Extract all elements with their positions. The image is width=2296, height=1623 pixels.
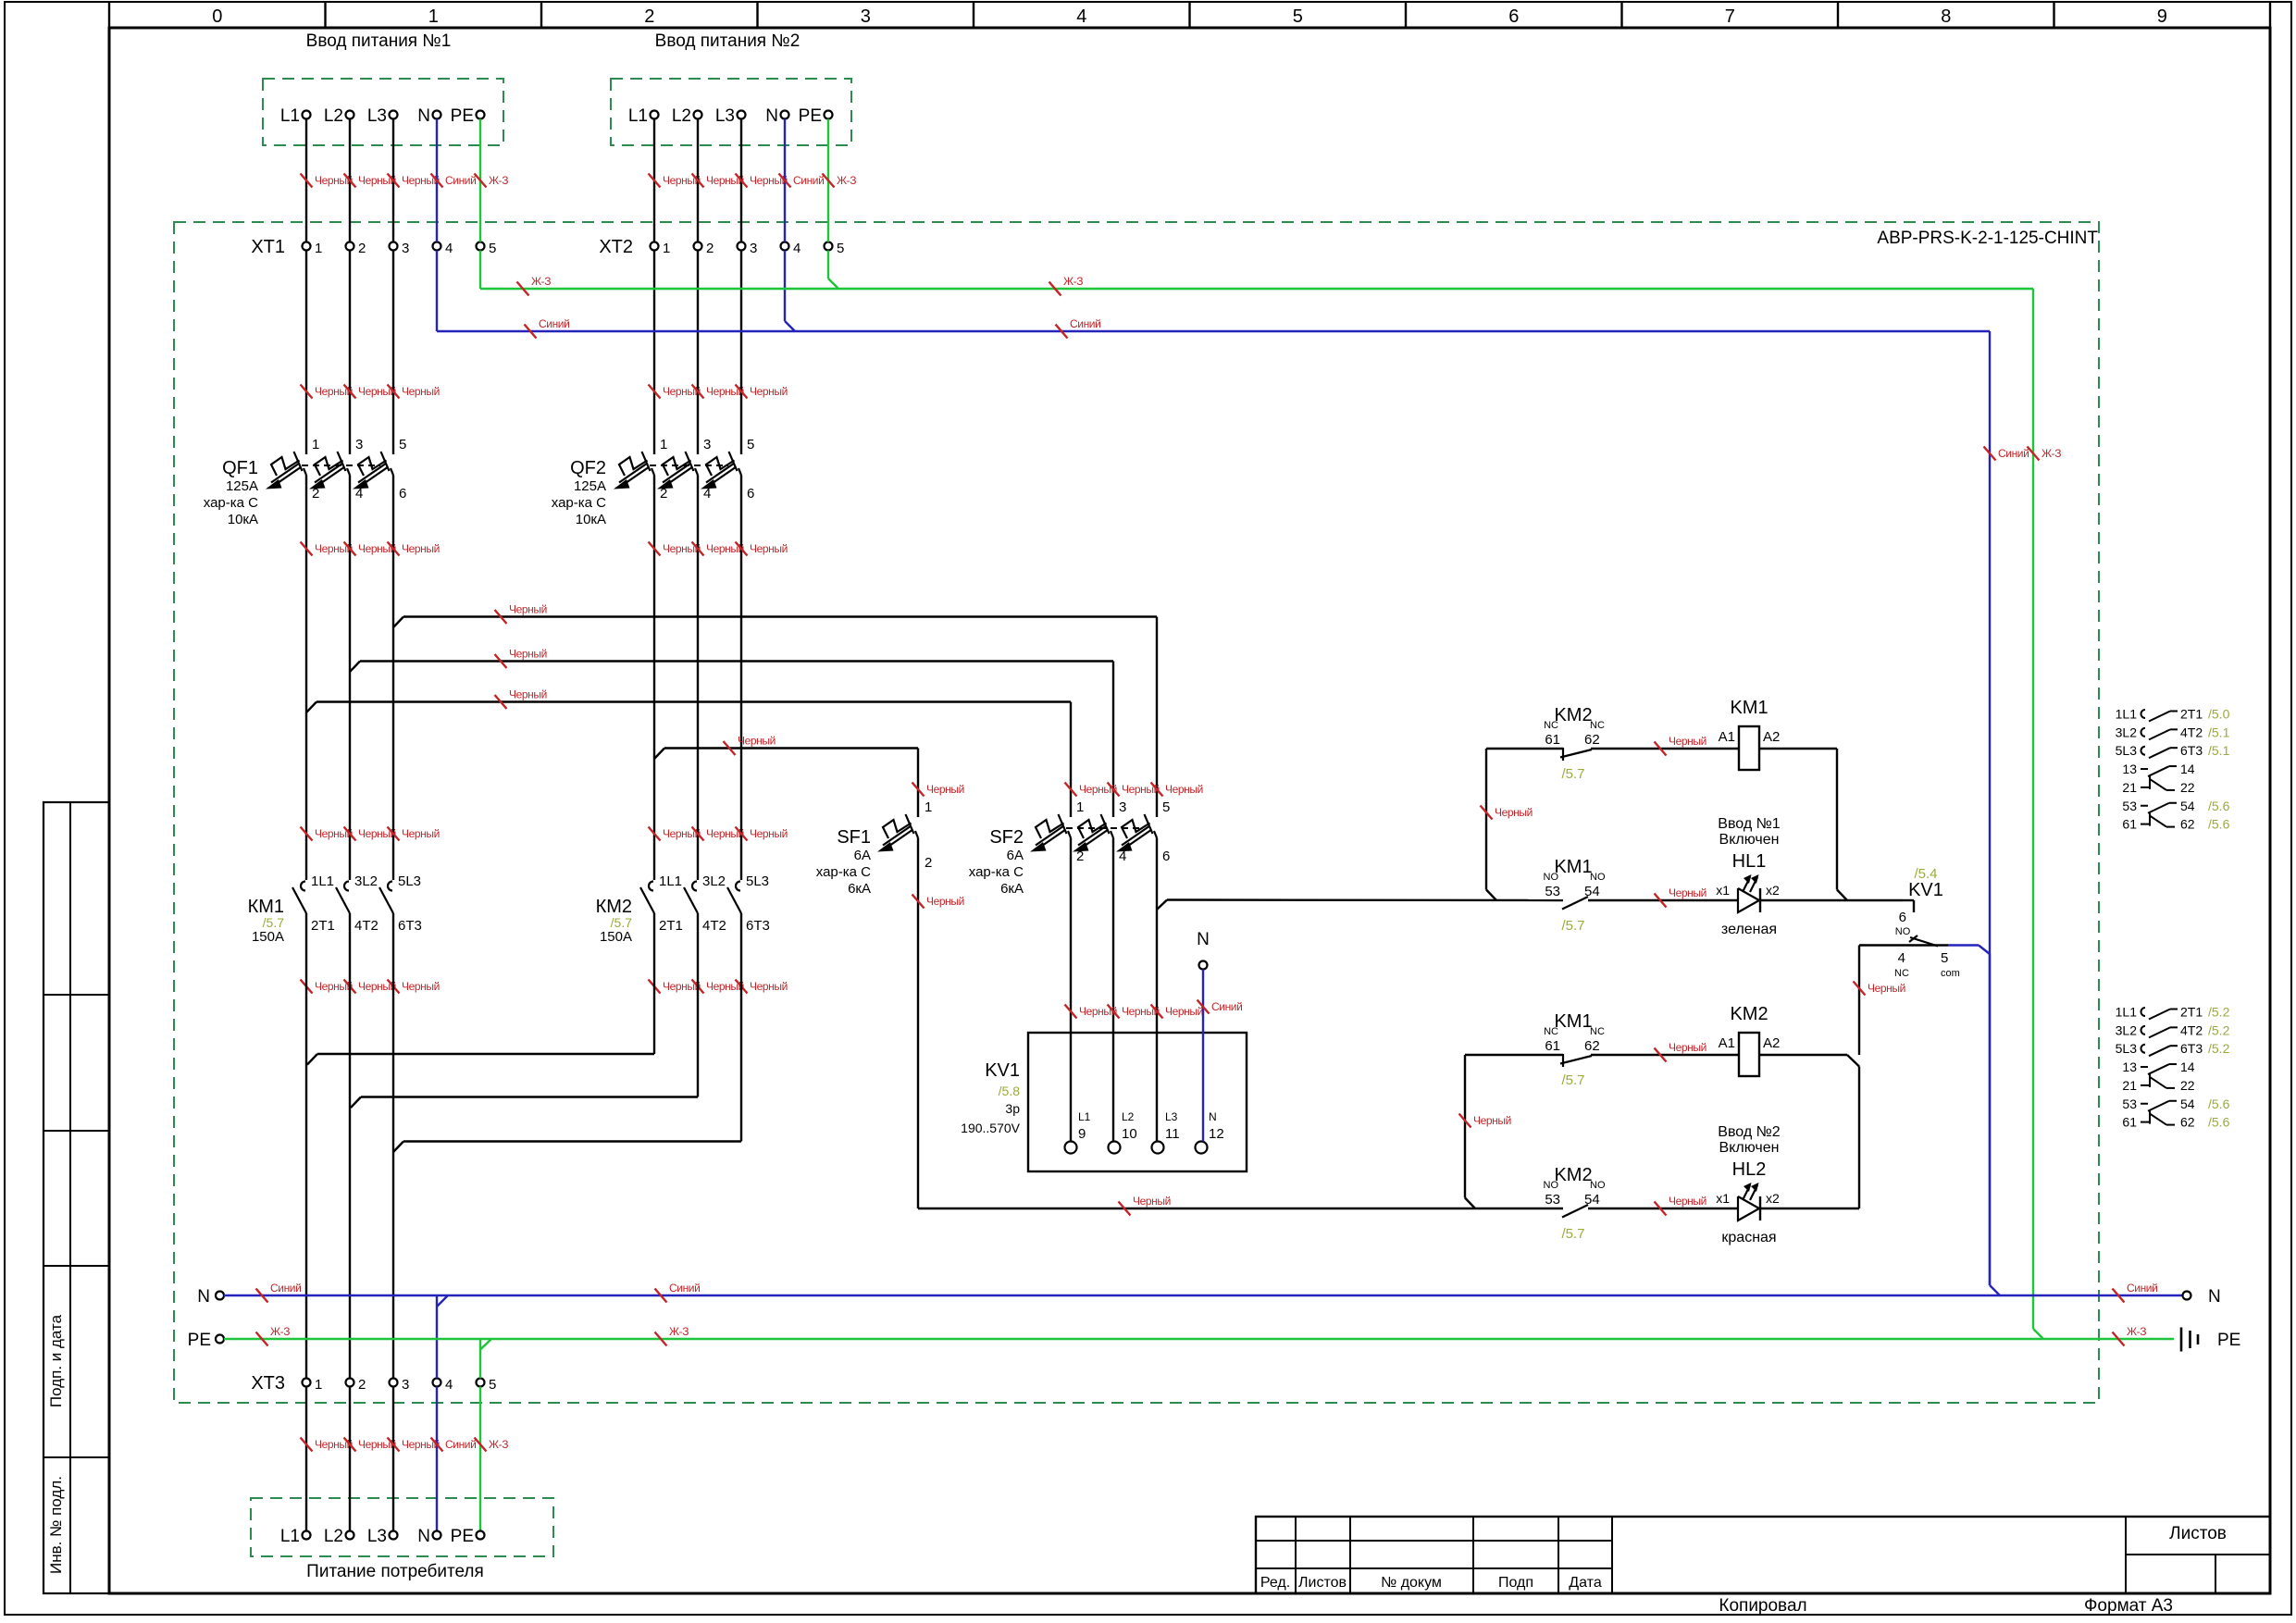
svg-text:8: 8	[1941, 6, 1951, 27]
svg-text:61: 61	[2122, 1115, 2137, 1130]
svg-text:2: 2	[925, 855, 932, 871]
svg-text:4T2: 4T2	[2180, 725, 2203, 739]
svg-text:10: 10	[1122, 1126, 1137, 1142]
svg-text:3: 3	[402, 241, 409, 256]
svg-text:5L3: 5L3	[2116, 743, 2138, 758]
svg-text:Ж-З: Ж-З	[531, 275, 551, 288]
svg-text:150А: 150А	[600, 929, 632, 945]
svg-text:Черный: Черный	[1868, 982, 1905, 995]
svg-text:62: 62	[2180, 1115, 2195, 1130]
svg-text:Черный: Черный	[750, 385, 788, 398]
svg-text:/5.2: /5.2	[2208, 1041, 2230, 1056]
svg-text:Листов: Листов	[1298, 1575, 1347, 1591]
svg-text:62: 62	[1584, 732, 1600, 748]
svg-text:Черный: Черный	[509, 648, 547, 661]
svg-text:NC: NC	[1590, 720, 1605, 731]
svg-text:№ докум: № докум	[1381, 1575, 1442, 1591]
svg-text:6: 6	[1162, 849, 1170, 864]
svg-text:53: 53	[2122, 1096, 2137, 1111]
svg-text:6: 6	[1508, 6, 1519, 27]
svg-text:x1: x1	[1716, 1191, 1730, 1206]
svg-text:NC: NC	[1544, 1026, 1558, 1037]
svg-text:KM2: KM2	[1554, 705, 1592, 725]
svg-text:PE: PE	[451, 1527, 474, 1546]
svg-text:150А: 150А	[252, 929, 284, 945]
svg-text:14: 14	[2180, 1059, 2195, 1074]
svg-text:QF2: QF2	[570, 458, 606, 478]
svg-text:/5.7: /5.7	[611, 915, 633, 930]
svg-text:Синий: Синий	[270, 1282, 301, 1295]
svg-text:7: 7	[1725, 6, 1735, 27]
svg-text:хар-ка С: хар-ка С	[204, 495, 258, 511]
svg-text:Черный: Черный	[1165, 783, 1203, 796]
svg-text:Черный: Черный	[738, 735, 776, 748]
svg-text:54: 54	[2180, 799, 2195, 813]
svg-text:NO: NO	[1544, 1180, 1559, 1191]
svg-text:13: 13	[2122, 762, 2137, 776]
svg-text:KV1: KV1	[1908, 880, 1943, 900]
svg-text:L2: L2	[324, 1527, 343, 1546]
svg-text:XT3: XT3	[251, 1373, 285, 1394]
svg-text:Черный: Черный	[1669, 735, 1706, 748]
svg-text:62: 62	[2180, 817, 2195, 832]
svg-text:NO: NO	[1895, 926, 1911, 937]
svg-text:Подп: Подп	[1498, 1575, 1533, 1591]
svg-text:3L2: 3L2	[2116, 1022, 2138, 1037]
svg-text:54: 54	[2180, 1096, 2195, 1111]
svg-text:Черный: Черный	[1669, 1195, 1706, 1208]
svg-text:0: 0	[212, 6, 222, 27]
svg-text:PE: PE	[188, 1331, 211, 1350]
svg-text:6T3: 6T3	[2180, 743, 2203, 758]
svg-text:Дата: Дата	[1569, 1575, 1602, 1591]
svg-text:L3: L3	[715, 106, 735, 126]
svg-text:KV1: KV1	[985, 1060, 1020, 1081]
svg-text:АВР-PRS-K-2-1-125-CHINT: АВР-PRS-K-2-1-125-CHINT	[1877, 229, 2098, 248]
svg-text:com: com	[1941, 968, 1960, 979]
svg-text:хар-ка С: хар-ка С	[969, 864, 1024, 880]
svg-text:L2: L2	[1122, 1110, 1135, 1123]
svg-text:Синий: Синий	[1070, 317, 1100, 330]
svg-text:/5.6: /5.6	[2208, 1115, 2230, 1130]
svg-text:/5.7: /5.7	[1561, 918, 1584, 934]
svg-text:6: 6	[399, 486, 406, 502]
svg-text:5: 5	[747, 437, 754, 452]
svg-text:/5.6: /5.6	[2208, 799, 2230, 813]
svg-text:125А: 125А	[574, 478, 606, 494]
svg-text:PE: PE	[799, 106, 822, 126]
svg-text:N: N	[2208, 1287, 2221, 1307]
svg-text:Формат А3: Формат А3	[2084, 1596, 2173, 1616]
svg-text:зеленая: зеленая	[1721, 922, 1777, 937]
svg-text:5L3: 5L3	[746, 873, 769, 889]
svg-text:/5.6: /5.6	[2208, 1096, 2230, 1111]
svg-text:NC: NC	[1590, 1026, 1605, 1037]
svg-text:/5.1: /5.1	[2208, 743, 2230, 758]
svg-text:3: 3	[750, 241, 757, 256]
svg-text:L1: L1	[628, 106, 648, 126]
svg-text:L1: L1	[280, 1527, 300, 1546]
svg-text:Инв. № подл.: Инв. № подл.	[47, 1476, 65, 1574]
svg-text:Ред.: Ред.	[1260, 1575, 1290, 1591]
svg-text:NO: NO	[1590, 872, 1606, 883]
svg-text:L1: L1	[280, 106, 300, 126]
svg-text:6Т3: 6Т3	[746, 918, 770, 934]
svg-text:22: 22	[2180, 1078, 2195, 1093]
svg-text:4Т2: 4Т2	[354, 918, 379, 934]
svg-text:/5.7: /5.7	[263, 915, 285, 930]
svg-text:1: 1	[428, 6, 439, 27]
svg-text:5: 5	[1293, 6, 1303, 27]
svg-text:2: 2	[358, 241, 366, 256]
svg-text:3L2: 3L2	[2116, 725, 2138, 739]
svg-text:54: 54	[1584, 884, 1600, 899]
svg-text:2Т1: 2Т1	[311, 918, 335, 934]
svg-text:3: 3	[355, 437, 363, 452]
svg-text:1: 1	[663, 241, 670, 256]
svg-text:HL2: HL2	[1732, 1159, 1767, 1180]
svg-text:1L1: 1L1	[659, 873, 682, 889]
svg-text:/5.8: /5.8	[999, 1084, 1021, 1098]
svg-text:Включен: Включен	[1719, 1140, 1780, 1156]
svg-text:5L3: 5L3	[398, 873, 421, 889]
svg-text:/5.7: /5.7	[1561, 1072, 1584, 1088]
svg-text:Черный: Черный	[402, 385, 440, 398]
svg-text:хар-ка С: хар-ка С	[816, 864, 871, 880]
svg-text:Черный: Черный	[1079, 1005, 1117, 1018]
svg-text:Черный: Черный	[1079, 783, 1117, 796]
svg-text:Синий: Синий	[669, 1282, 700, 1295]
svg-text:125А: 125А	[226, 478, 258, 494]
svg-text:/5.0: /5.0	[2208, 707, 2230, 722]
svg-text:9: 9	[1078, 1126, 1086, 1142]
svg-text:XT1: XT1	[251, 237, 285, 257]
svg-text:хар-ка С: хар-ка С	[552, 495, 606, 511]
svg-text:1: 1	[312, 437, 319, 452]
svg-text:L2: L2	[324, 106, 343, 126]
svg-text:13: 13	[2122, 1059, 2137, 1074]
svg-text:NO: NO	[1544, 872, 1559, 883]
svg-text:2Т1: 2Т1	[659, 918, 683, 934]
svg-text:/5.1: /5.1	[2208, 725, 2230, 739]
svg-text:SF2: SF2	[989, 827, 1024, 848]
svg-text:6: 6	[1899, 910, 1906, 925]
svg-text:5: 5	[399, 437, 406, 452]
svg-text:КМ2: КМ2	[596, 897, 632, 917]
svg-text:Черный: Черный	[1669, 886, 1706, 899]
svg-text:Ж-З: Ж-З	[489, 174, 508, 187]
svg-text:1L1: 1L1	[2116, 1005, 2138, 1020]
svg-text:A1: A1	[1719, 729, 1735, 745]
svg-text:6А: 6А	[854, 848, 871, 863]
svg-text:5L3: 5L3	[2116, 1041, 2138, 1056]
svg-text:Черный: Черный	[750, 827, 788, 840]
svg-text:NO: NO	[1590, 1180, 1606, 1191]
svg-text:Черный: Черный	[750, 980, 788, 993]
svg-text:/5.7: /5.7	[1561, 1226, 1584, 1242]
svg-text:5: 5	[1941, 950, 1948, 966]
svg-text:Синий: Синий	[793, 174, 824, 187]
svg-text:x2: x2	[1766, 883, 1780, 898]
svg-text:SF1: SF1	[837, 827, 871, 848]
svg-text:A2: A2	[1763, 1035, 1780, 1051]
svg-text:4: 4	[793, 241, 800, 256]
svg-text:KM1: KM1	[1554, 857, 1592, 877]
svg-text:1: 1	[1076, 799, 1084, 815]
svg-text:1L1: 1L1	[2116, 707, 2138, 722]
svg-text:62: 62	[1584, 1038, 1600, 1054]
svg-text:x1: x1	[1716, 883, 1730, 898]
svg-text:6кА: 6кА	[848, 881, 871, 897]
svg-text:Черный: Черный	[509, 688, 547, 701]
svg-text:3L2: 3L2	[354, 873, 378, 889]
svg-text:Ж-З: Ж-З	[270, 1325, 290, 1338]
svg-text:Ж-З: Ж-З	[2127, 1325, 2146, 1338]
svg-text:красная: красная	[1721, 1230, 1776, 1245]
svg-text:Ввод №2: Ввод №2	[1718, 1124, 1780, 1140]
svg-text:PE: PE	[2217, 1331, 2240, 1350]
svg-text:Черный: Черный	[402, 827, 440, 840]
svg-text:2: 2	[706, 241, 714, 256]
svg-text:53: 53	[1545, 884, 1560, 899]
svg-text:4: 4	[1898, 950, 1905, 966]
svg-text:/5.2: /5.2	[2208, 1022, 2230, 1037]
svg-text:10кА: 10кА	[228, 512, 258, 527]
svg-text:21: 21	[2122, 780, 2137, 795]
svg-text:N: N	[765, 106, 778, 126]
svg-text:N: N	[417, 106, 430, 126]
svg-text:4: 4	[445, 241, 453, 256]
svg-text:Черный: Черный	[1473, 1114, 1511, 1127]
svg-text:Ж-З: Ж-З	[669, 1325, 689, 1338]
svg-text:6Т3: 6Т3	[398, 918, 422, 934]
svg-text:1: 1	[315, 241, 322, 256]
svg-text:3: 3	[703, 437, 711, 452]
svg-text:Ввод питания №1: Ввод питания №1	[306, 31, 452, 51]
svg-text:L2: L2	[672, 106, 691, 126]
svg-text:/5.2: /5.2	[2208, 1005, 2230, 1020]
svg-text:Синий: Синий	[445, 174, 476, 187]
svg-text:9: 9	[2157, 6, 2167, 27]
svg-text:PE: PE	[451, 106, 474, 126]
svg-text:Черный: Черный	[1165, 1005, 1203, 1018]
svg-text:L3: L3	[367, 1527, 387, 1546]
svg-text:22: 22	[2180, 780, 2195, 795]
svg-text:6T3: 6T3	[2180, 1041, 2203, 1056]
svg-text:HL1: HL1	[1732, 851, 1767, 872]
svg-text:L3: L3	[1165, 1110, 1178, 1123]
svg-text:61: 61	[1545, 1038, 1560, 1054]
svg-text:4T2: 4T2	[2180, 1022, 2203, 1037]
svg-text:2T1: 2T1	[2180, 1005, 2203, 1020]
svg-text:КМ1: КМ1	[248, 897, 284, 917]
svg-text:Копировал: Копировал	[1719, 1596, 1806, 1616]
svg-text:61: 61	[2122, 817, 2137, 832]
svg-text:Черный: Черный	[926, 783, 964, 796]
svg-text:53: 53	[1545, 1192, 1560, 1208]
svg-text:A1: A1	[1719, 1035, 1735, 1051]
svg-text:Черный: Черный	[1133, 1195, 1171, 1208]
svg-text:x2: x2	[1766, 1191, 1780, 1206]
svg-text:KM1: KM1	[1730, 698, 1768, 718]
svg-text:Черный: Черный	[402, 542, 440, 555]
svg-text:12: 12	[1209, 1126, 1224, 1142]
svg-text:Синий: Синий	[2127, 1282, 2157, 1295]
svg-text:5: 5	[489, 241, 496, 256]
svg-text:/5.6: /5.6	[2208, 817, 2230, 832]
svg-text:1L1: 1L1	[311, 873, 334, 889]
svg-text:4: 4	[445, 1377, 453, 1393]
svg-text:2: 2	[644, 6, 654, 27]
svg-text:61: 61	[1545, 732, 1560, 748]
svg-text:Синий: Синий	[445, 1438, 476, 1451]
svg-text:53: 53	[2122, 799, 2137, 813]
svg-text:Подп. и дата: Подп. и дата	[47, 1314, 65, 1407]
svg-text:1: 1	[315, 1377, 322, 1393]
svg-text:A2: A2	[1763, 729, 1780, 745]
svg-text:3р: 3р	[1005, 1101, 1020, 1116]
svg-text:Синий: Синий	[1998, 447, 2029, 460]
svg-text:KM2: KM2	[1730, 1004, 1768, 1024]
svg-text:3: 3	[861, 6, 871, 27]
svg-text:2: 2	[358, 1377, 366, 1393]
svg-text:5: 5	[1162, 799, 1170, 815]
svg-text:NC: NC	[1544, 720, 1558, 731]
svg-text:3: 3	[1119, 799, 1126, 815]
svg-text:4Т2: 4Т2	[702, 918, 726, 934]
svg-text:1: 1	[925, 799, 932, 815]
svg-text:N: N	[1209, 1110, 1217, 1123]
svg-text:Синий: Синий	[1211, 1000, 1242, 1013]
svg-text:190..570V: 190..570V	[961, 1121, 1020, 1135]
svg-text:Включен: Включен	[1719, 832, 1780, 848]
svg-text:Черный: Черный	[926, 895, 964, 908]
svg-text:XT2: XT2	[599, 237, 633, 257]
svg-text:L3: L3	[367, 106, 387, 126]
svg-text:2T1: 2T1	[2180, 707, 2203, 722]
svg-text:L1: L1	[1078, 1110, 1091, 1123]
svg-text:Ж-З: Ж-З	[489, 1438, 508, 1451]
svg-text:Черный: Черный	[750, 542, 788, 555]
svg-text:6: 6	[747, 486, 754, 502]
svg-text:11: 11	[1165, 1126, 1180, 1142]
svg-text:1: 1	[660, 437, 667, 452]
svg-text:6А: 6А	[1007, 848, 1024, 863]
svg-text:4: 4	[1076, 6, 1086, 27]
svg-text:3L2: 3L2	[702, 873, 726, 889]
svg-text:Черный: Черный	[509, 603, 547, 616]
svg-text:Ж-З: Ж-З	[837, 174, 856, 187]
svg-text:Ввод №1: Ввод №1	[1718, 816, 1780, 832]
svg-text:Питание потребителя: Питание потребителя	[306, 1562, 484, 1581]
svg-text:5: 5	[489, 1377, 496, 1393]
svg-text:N: N	[417, 1527, 430, 1546]
svg-text:Черный: Черный	[402, 980, 440, 993]
svg-text:/5.7: /5.7	[1561, 766, 1584, 782]
svg-text:Листов: Листов	[2169, 1524, 2227, 1543]
svg-text:N: N	[197, 1287, 210, 1307]
svg-text:Ж-З: Ж-З	[1063, 275, 1083, 288]
svg-text:KM1: KM1	[1554, 1011, 1592, 1032]
svg-text:NC: NC	[1894, 968, 1909, 979]
svg-text:3: 3	[402, 1377, 409, 1393]
svg-text:Черный: Черный	[1495, 806, 1533, 819]
svg-text:21: 21	[2122, 1078, 2137, 1093]
svg-text:5: 5	[837, 241, 844, 256]
svg-text:Синий: Синий	[539, 317, 569, 330]
svg-text:N: N	[1197, 930, 1210, 949]
svg-text:Ввод питания №2: Ввод питания №2	[655, 31, 800, 51]
svg-text:54: 54	[1584, 1192, 1600, 1208]
svg-text:Ж-З: Ж-З	[2042, 447, 2061, 460]
svg-text:Черный: Черный	[1669, 1041, 1706, 1054]
svg-text:QF1: QF1	[222, 458, 258, 478]
svg-text:6кА: 6кА	[1000, 881, 1024, 897]
svg-text:14: 14	[2180, 762, 2195, 776]
svg-text:10кА: 10кА	[576, 512, 606, 527]
svg-text:KM2: KM2	[1554, 1165, 1592, 1185]
